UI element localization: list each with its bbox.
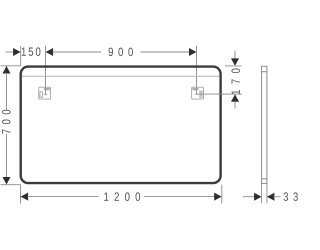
dim 33: right extension tick — [266, 184, 268, 204]
side view: left edge — [261, 66, 263, 183]
side view: upper divider — [261, 71, 267, 73]
dim 700: top extension tick — [1, 65, 21, 67]
dim 1200: line left segment — [28, 196, 99, 198]
mirror inner top edge line — [22, 75, 220, 77]
wire: extension line left tick of 150 dim — [20, 46, 22, 66]
dim 700: line upper segment — [6, 73, 8, 110]
wire: line from right bracket centre to 170 dim — [198, 93, 243, 95]
right mounting bracket symbol — [192, 87, 204, 99]
side view: right edge — [266, 66, 268, 183]
dim 33: arrow pointing left — [267, 193, 275, 201]
side view: lower divider — [261, 178, 267, 180]
mirror front view outline — [21, 67, 221, 184]
dim 170: label (rotated) — [231, 68, 239, 94]
wire: extension line from 900 tick down to right bracket — [196, 46, 198, 95]
dim 170: lower leader line — [234, 101, 236, 108]
dim 150: label — [22, 47, 41, 55]
dim 900: label — [109, 48, 133, 56]
side view: bottom edge — [261, 182, 267, 184]
dim 170: arrow pointing down — [231, 58, 239, 66]
dim 33: label — [284, 192, 298, 200]
dim 700: bottom extension tick — [1, 184, 21, 186]
left mounting bracket symbol — [39, 87, 51, 99]
dim 900: arrow pointing right — [189, 48, 197, 56]
dim 33: right leader line — [274, 196, 281, 198]
dim 33: left extension tick — [261, 184, 263, 204]
dim 170: arrow pointing up — [231, 94, 239, 102]
dim 1200: line right segment — [144, 196, 215, 198]
dim 1200: right extension tick — [221, 185, 223, 204]
dim 700: label (rotated) — [2, 110, 10, 134]
dim 700: line lower segment — [6, 134, 8, 178]
dim 33: arrow pointing right — [254, 193, 262, 201]
dim 1200: arrow pointing left — [21, 193, 29, 201]
dim 33: left leader line — [243, 196, 255, 198]
dim 170: top tick — [225, 65, 242, 67]
dim 700: arrow pointing up — [3, 66, 11, 74]
dim 150: leader line — [6, 51, 14, 53]
dim 170: upper leader line — [234, 51, 236, 61]
dim 700: arrow pointing down — [3, 177, 11, 185]
wire: extension line from 150/900 tick down to left bracket — [45, 46, 47, 95]
dim 1200: label — [104, 192, 140, 200]
dim 900: line right segment — [141, 51, 191, 53]
dim 1200: left extension tick — [20, 185, 22, 204]
dim 1200: arrow pointing right — [214, 193, 222, 201]
dim 900: arrow pointing left — [46, 48, 54, 56]
side view: top edge — [261, 65, 267, 67]
dim 900: line left segment — [53, 51, 102, 53]
dim 150: arrow pointing right — [13, 48, 21, 56]
